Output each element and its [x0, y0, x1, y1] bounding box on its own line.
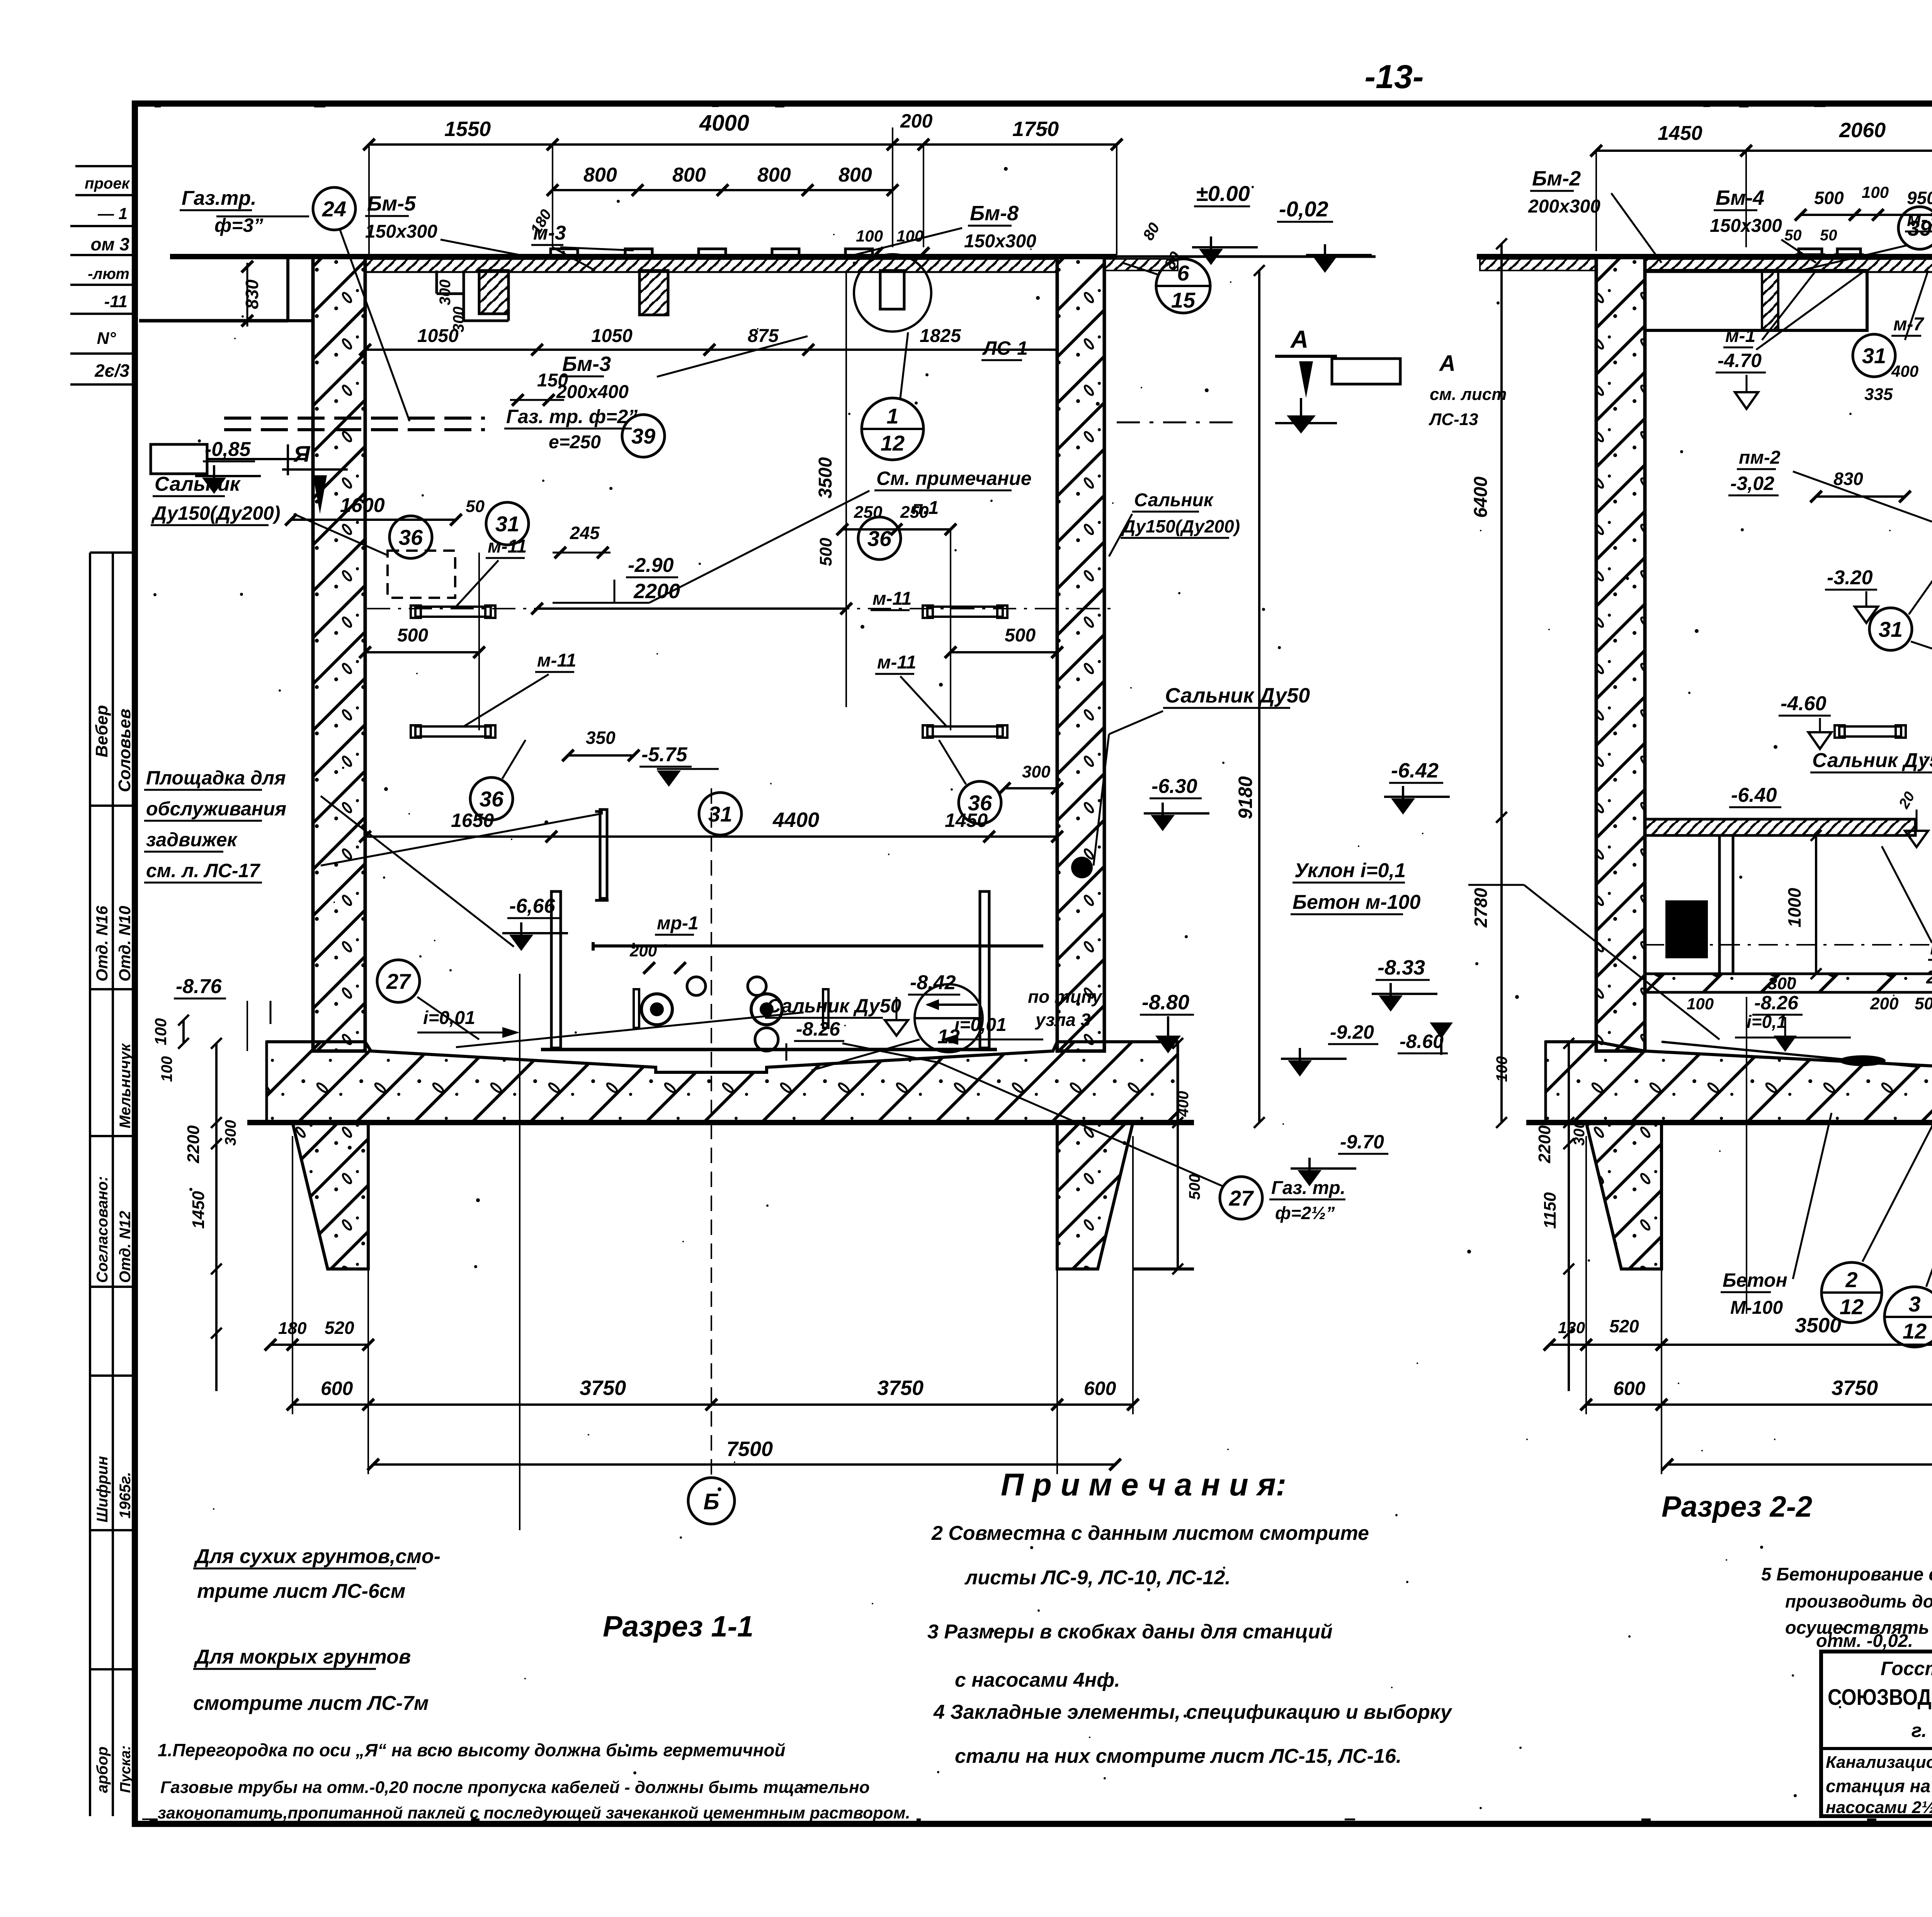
callout 36 d: [959, 781, 1001, 824]
svg-text:3750: 3750: [1832, 1376, 1878, 1400]
leader 1/12: [900, 332, 908, 398]
callout 2/12: [1821, 1262, 1882, 1323]
svg-text:39: 39: [631, 424, 655, 448]
svg-text:100: 100: [151, 1018, 170, 1045]
svg-text:31: 31: [1862, 344, 1886, 368]
svg-text:800: 800: [757, 164, 791, 186]
pump mid circle: [755, 1028, 778, 1051]
svg-text:Бм-5: Бм-5: [367, 192, 416, 215]
callout 31 rs2: [1869, 608, 1912, 650]
svg-text:1050: 1050: [417, 326, 459, 346]
svg-text:-3.20: -3.20: [1827, 566, 1873, 589]
svg-text:стали на них смотрите ли: стали на них смотрите лист ЛС-15, ЛС-16.: [955, 1745, 1401, 1767]
callout 31 b: [699, 793, 742, 835]
leader 36c: [502, 740, 526, 779]
svg-text:500: 500: [1915, 994, 1932, 1013]
leader Bm2: [1611, 193, 1662, 263]
svg-text:800: 800: [583, 164, 617, 186]
svg-text:Газ. тр. ф=2”: Газ. тр. ф=2”: [506, 406, 638, 427]
callout 36 b: [858, 517, 901, 560]
bracket plate rs mid: [1839, 726, 1901, 737]
svg-text:задвижек: задвижек: [146, 829, 238, 850]
rs top verticals: [1595, 151, 1597, 251]
svg-text:Бетон м-100: Бетон м-100: [1293, 891, 1421, 913]
embed block A: [479, 270, 509, 314]
svg-text:150х300: 150х300: [1710, 216, 1782, 236]
svg-text:-5.75: -5.75: [641, 743, 688, 766]
svg-text:с насосами 4нф.: с насосами 4нф.: [955, 1669, 1120, 1691]
sump wall right: [980, 891, 989, 1048]
leader note: [649, 491, 869, 603]
svg-text:800: 800: [838, 164, 872, 186]
svg-text:12: 12: [881, 431, 905, 455]
vert 9180 line: [1258, 270, 1260, 1123]
callout 36 c: [470, 777, 513, 820]
svg-text:39: 39: [1908, 216, 1932, 240]
svg-text:-8.33: -8.33: [1378, 956, 1425, 979]
svg-text:36: 36: [968, 791, 992, 815]
leader 27b: [939, 1063, 1223, 1186]
right footing wedge: [1057, 1123, 1133, 1269]
leader 39rs: [1801, 245, 1907, 270]
dim 1600 row: [291, 519, 456, 521]
leader 6/15: [1122, 263, 1157, 274]
svg-text:200х400: 200х400: [1926, 967, 1932, 988]
leader salnik: [294, 514, 390, 556]
svg-text:Сальник: Сальник: [1134, 490, 1214, 510]
callout circle 24: [313, 187, 355, 230]
svg-text:200х300: 200х300: [1528, 196, 1600, 217]
sump wall left: [551, 891, 561, 1048]
bottom slab rs: [1546, 1042, 1932, 1123]
svg-text:ЛС-13: ЛС-13: [1429, 410, 1478, 429]
svg-text:31: 31: [1879, 617, 1903, 641]
svg-text:1600: 1600: [340, 494, 385, 517]
callout 31 rs1: [1853, 334, 1895, 377]
pump flange left: [641, 994, 672, 1025]
svg-text:законопатить,пропитанной пакле: законопатить,пропитанной паклей с послед…: [158, 1804, 910, 1822]
sump bottom: [541, 1048, 997, 1051]
svg-text:4400: 4400: [772, 808, 819, 832]
svg-text:15: 15: [1171, 288, 1196, 312]
svg-text:Сальник Ду50: Сальник Ду50: [1812, 749, 1932, 772]
rs top dim row: [1596, 150, 1932, 152]
svg-text:830: 830: [1833, 469, 1863, 489]
callout 27 a: [377, 960, 420, 1002]
svg-text:Площадка для: Площадка для: [146, 767, 286, 789]
svg-text:150х300: 150х300: [964, 231, 1036, 252]
leader 12: [811, 1039, 920, 1070]
svg-text:27: 27: [1229, 1186, 1254, 1210]
top slab band rs mid: [1645, 259, 1932, 272]
svg-text:Канализационная насосная: Канализационная насосная: [1826, 1753, 1932, 1772]
leader Bm-5: [440, 240, 520, 255]
svg-text:См. примечание: См. примечание: [876, 468, 1032, 489]
svg-text:-11: -11: [104, 292, 128, 311]
svg-text:520: 520: [1609, 1316, 1639, 1336]
svg-text:обслуживания: обслуживания: [146, 798, 286, 820]
gas pipe through wall: [224, 417, 485, 420]
bottom dim row left section: [293, 1403, 1133, 1406]
ground step left of wall: [288, 257, 313, 321]
svg-text:Уклон i=0,1: Уклон i=0,1: [1294, 859, 1406, 882]
vert line x2460: [950, 529, 951, 730]
svg-text:Разрез 1-1: Разрез 1-1: [603, 1610, 753, 1643]
svg-text:станция на 2 агрегата с: станция на 2 агрегата с: [1826, 1776, 1932, 1796]
detail circle 1-12 plate: [854, 254, 931, 332]
svg-text:Отд. N10: Отд. N10: [116, 906, 134, 981]
svg-text:Сальник Ду50: Сальник Ду50: [1165, 684, 1310, 707]
ground band right of right wall: [1104, 259, 1178, 270]
embed block B: [639, 270, 668, 315]
stamp low box: [89, 989, 91, 1816]
mid axis dashline: [367, 608, 1117, 609]
dim row2 800x4: [553, 189, 893, 191]
svg-text:2 Совместна с данным листом: 2 Совместна с данным листом смотрите: [931, 1522, 1369, 1544]
svg-text:150х300: 150х300: [365, 221, 437, 242]
wall right of section 1-1: [1057, 257, 1104, 1051]
svg-text:-8.42: -8.42: [910, 971, 956, 994]
rs vert ext lines: [1585, 1136, 1587, 1414]
svg-text:ф=3”: ф=3”: [214, 214, 263, 236]
svg-text:245: 245: [570, 523, 600, 543]
small rectangle detail: [1332, 359, 1400, 384]
floor plate m-3 #4: [772, 249, 799, 256]
svg-text:100: 100: [1862, 183, 1889, 201]
top slab band: [365, 259, 1057, 272]
svg-text:1.Перегородка по оси „Я“ на: 1.Перегородка по оси „Я“ на всю высоту д…: [158, 1740, 786, 1760]
svg-text:Газовые трубы на отм.-0,20 пос: Газовые трубы на отм.-0,20 после пропуск…: [160, 1778, 870, 1797]
svg-text:50: 50: [466, 497, 485, 516]
bottom slab body: [267, 1042, 1178, 1123]
pump flange right: [751, 994, 782, 1025]
svg-text:5 Бетонирование стен подземной: 5 Бетонирование стен подземной части и п…: [1761, 1564, 1932, 1584]
pump axis line 2: [519, 974, 520, 1530]
svg-text:130: 130: [1558, 1318, 1585, 1337]
svg-text:-8.76: -8.76: [176, 975, 222, 998]
svg-text:ом 3: ом 3: [91, 234, 130, 254]
svg-text:24: 24: [322, 197, 346, 221]
leader uklon: [1468, 884, 1524, 886]
svg-text:1825: 1825: [920, 326, 961, 346]
bottom slab rs bottom line: [1526, 1120, 1932, 1125]
svg-text:мр-1: мр-1: [657, 913, 699, 934]
svg-text:Для мокрых грунтов: Для мокрых грунтов: [194, 1646, 411, 1668]
svg-text:12: 12: [1840, 1294, 1864, 1319]
svg-text:Ду150(Ду200): Ду150(Ду200): [151, 502, 280, 524]
svg-text:Бм-3: Бм-3: [562, 352, 611, 376]
svg-text:арбор: арбор: [94, 1747, 111, 1793]
svg-text:335: 335: [1864, 385, 1893, 404]
svg-text:500: 500: [1186, 1174, 1203, 1200]
svg-text:300: 300: [1022, 762, 1051, 781]
gland stub left: [634, 989, 639, 1028]
bottom slab bottom line: [247, 1120, 1194, 1125]
vert dim 2780: [1500, 817, 1503, 1123]
rs dim 7500: [1667, 1463, 1932, 1466]
rs vert dims left col: [1568, 1043, 1570, 1391]
callout 31 a: [486, 502, 529, 545]
svg-text:4000: 4000: [699, 111, 749, 136]
flag -5.75: [657, 771, 681, 787]
title block frame: [1821, 1652, 1932, 1816]
svg-text:— 1: — 1: [97, 204, 128, 223]
svg-text:-8.60: -8.60: [1400, 1031, 1444, 1052]
callout 6/15: [1156, 259, 1210, 313]
svg-text:П р и м е ч а н и я:: П р и м е ч а н и я:: [1001, 1467, 1286, 1502]
svg-text:М-100: М-100: [1730, 1298, 1783, 1318]
svg-text:800: 800: [672, 164, 706, 186]
leader 312: [1926, 1067, 1932, 1287]
callout 1/12: [862, 398, 923, 460]
svg-text:200: 200: [1870, 994, 1899, 1013]
svg-text:-8.80: -8.80: [1142, 991, 1189, 1014]
left footing wedge: [293, 1123, 368, 1269]
callout circle 39 left: [622, 415, 665, 457]
gland stub right: [823, 989, 828, 1028]
frame edge roughness: [712, 104, 719, 107]
svg-text:Бм-8: Бм-8: [970, 202, 1019, 225]
leader 31rs2: [1909, 549, 1932, 614]
black blob rs: [1839, 1055, 1886, 1066]
leader 27b2: [456, 1012, 804, 1047]
svg-text:950: 950: [1907, 188, 1932, 208]
floor plate m-3 #5: [845, 249, 872, 256]
svg-text:Я: Я: [293, 442, 311, 467]
callout 3/12: [1884, 1287, 1932, 1347]
dim row verticals: [368, 145, 370, 255]
floor plate m-3 #1: [551, 249, 578, 256]
ground line left section: [170, 254, 1117, 259]
leader m11-4: [900, 676, 947, 726]
svg-text:Мельничук: Мельничук: [117, 1043, 134, 1128]
svg-text:А: А: [1290, 325, 1308, 353]
svg-text:А: А: [1439, 351, 1456, 376]
svg-text:50: 50: [1820, 227, 1837, 244]
svg-text:пм-2: пм-2: [1739, 447, 1781, 468]
svg-text:м-11: м-11: [877, 652, 916, 673]
svg-text:600: 600: [1084, 1378, 1116, 1399]
svg-text:Ду150(Ду200): Ду150(Ду200): [1121, 516, 1240, 536]
leader m7: [1905, 270, 1928, 340]
svg-text:см. л. ЛС-17: см. л. ЛС-17: [146, 860, 260, 881]
svg-text:200: 200: [629, 942, 657, 960]
svg-text:6400: 6400: [1471, 476, 1491, 518]
dim row1 1550 4000 200 1750: [369, 143, 1117, 146]
svg-text:-6.30: -6.30: [1151, 775, 1197, 798]
svg-text:9180: 9180: [1235, 776, 1256, 819]
svg-text:листы ЛС-9, ЛС-10, ЛС-12.: листы ЛС-9, ЛС-10, ЛС-12.: [964, 1567, 1231, 1589]
svg-text:300: 300: [222, 1120, 239, 1146]
callout 36 a: [389, 516, 432, 558]
leader bm11: [1882, 846, 1932, 943]
platform dash axis: [1645, 944, 1932, 946]
m-11 bracket 4: [927, 726, 1003, 737]
svg-text:7500: 7500: [726, 1437, 773, 1461]
leader m-3a: [560, 247, 634, 250]
leader Bm-8: [854, 228, 962, 255]
svg-text:-лют: -лют: [88, 265, 129, 282]
svg-text:ЛС-1: ЛС-1: [982, 337, 1028, 359]
svg-text:100: 100: [1687, 995, 1714, 1013]
rs slope lines: [1662, 1042, 1917, 1067]
svg-text:Газ.тр.: Газ.тр.: [182, 187, 257, 209]
svg-text:м-11: м-11: [537, 650, 576, 671]
svg-text:2200: 2200: [633, 580, 680, 603]
svg-text:Согласовано:: Согласовано:: [94, 1176, 111, 1283]
svg-text:100: 100: [896, 227, 923, 245]
svg-text:600: 600: [1613, 1378, 1646, 1399]
callout 27 b: [1220, 1177, 1262, 1219]
leader m11-2: [464, 674, 549, 726]
svg-text:300: 300: [437, 279, 454, 305]
svg-text:200х400: 200х400: [556, 382, 629, 402]
embed step under band: [435, 270, 438, 294]
pump axis line: [711, 788, 712, 1477]
svg-text:1450: 1450: [1658, 122, 1702, 145]
leader 212: [1862, 1059, 1932, 1262]
dim row 1050 1050 875 1825: [365, 349, 1057, 351]
svg-text:2: 2: [1845, 1267, 1857, 1292]
svg-text:Отд. N16: Отд. N16: [93, 906, 111, 981]
vert line x1240: [478, 553, 480, 730]
leader platform: [321, 796, 514, 947]
vert extension lines bottom: [292, 1136, 293, 1414]
axis dash vertical: [1117, 422, 1240, 424]
svg-text:i=0,01: i=0,01: [954, 1015, 1007, 1035]
svg-text:1965г.: 1965г.: [117, 1472, 134, 1519]
leader Bm4: [1781, 240, 1816, 263]
platform bracket symbol: [595, 810, 603, 813]
leader 24: [216, 216, 309, 218]
svg-text:N°: N°: [97, 329, 116, 348]
svg-text:Бетон: Бетон: [1723, 1269, 1787, 1291]
svg-text:400: 400: [1891, 362, 1918, 380]
wall opening dashed: [388, 551, 455, 598]
svg-text:-2.90: -2.90: [628, 554, 674, 577]
svg-text:-8.26: -8.26: [1754, 992, 1799, 1014]
svg-text:4 Закладные элементы, специ: 4 Закладные элементы, спецификацию и выб…: [933, 1701, 1453, 1723]
svg-text:узла 3: узла 3: [1035, 1010, 1091, 1030]
callout 39 rs: [1898, 207, 1932, 249]
svg-text:трите лист ЛС-6см: трите лист ЛС-6см: [197, 1580, 405, 1602]
axis circle B: [688, 1478, 735, 1524]
svg-text:Газ. тр.: Газ. тр.: [1271, 1178, 1345, 1198]
pump small circle 2: [748, 977, 766, 995]
svg-text:-0,02: -0,02: [1279, 197, 1328, 221]
svg-text:300: 300: [1768, 974, 1796, 993]
svg-text:250: 250: [900, 503, 929, 522]
svg-text:Сальник: Сальник: [155, 473, 241, 495]
svg-text:м-1: м-1: [1725, 326, 1755, 346]
svg-text:-6.40: -6.40: [1731, 784, 1777, 806]
svg-text:±0.00: ±0.00: [1196, 181, 1250, 206]
svg-text:500: 500: [397, 625, 428, 646]
svg-text:м-11: м-11: [488, 536, 527, 557]
svg-text:830: 830: [242, 279, 262, 309]
svg-text:-8.26: -8.26: [796, 1018, 840, 1040]
stamp table top rows: [75, 165, 135, 167]
leader salnik right: [1109, 514, 1132, 556]
svg-text:3: 3: [1908, 1292, 1920, 1316]
leader Bm-3: [657, 336, 808, 377]
svg-text:Соловьев: Соловьев: [115, 709, 134, 792]
vert dim 6400: [1500, 244, 1503, 817]
svg-text:6: 6: [1177, 261, 1189, 285]
svg-text:100: 100: [158, 1056, 175, 1082]
svg-text:100: 100: [1493, 1056, 1510, 1082]
step line mid: [1133, 1267, 1194, 1271]
mid platform rs: [1645, 819, 1915, 835]
svg-text:Вебер: Вебер: [92, 705, 111, 757]
floor plate m-3 #3: [699, 249, 726, 256]
svg-text:СОЮЗВОДОКАНАЛПРОЕКТ: СОЮЗВОДОКАНАЛПРОЕКТ: [1828, 1685, 1932, 1710]
svg-text:350: 350: [586, 728, 616, 748]
svg-text:производить до отм. -0,70м. Да: производить до отм. -0,70м. Дальнейшее б…: [1785, 1591, 1932, 1611]
svg-text:300: 300: [1571, 1120, 1588, 1146]
beam hatch strip: [1762, 270, 1778, 330]
svg-text:3500: 3500: [815, 457, 836, 498]
svg-text:по типу: по типу: [1028, 987, 1103, 1007]
svg-text:Разрез 2-2: Разрез 2-2: [1662, 1490, 1812, 1523]
m-11 bracket 1: [415, 607, 491, 617]
svg-text:27: 27: [386, 969, 412, 993]
svg-text:см. лист: см. лист: [1430, 385, 1507, 404]
svg-text:500: 500: [1005, 625, 1036, 646]
svg-text:1000: 1000: [1784, 888, 1804, 927]
svg-text:-13-: -13-: [1365, 58, 1424, 95]
svg-text:ф=2½”: ф=2½”: [1275, 1203, 1335, 1223]
detail circle 12: [915, 984, 983, 1052]
svg-text:-6.42: -6.42: [1391, 759, 1439, 782]
svg-text:1450: 1450: [189, 1191, 208, 1229]
svg-text:Отд. N12: Отд. N12: [117, 1211, 134, 1283]
slab top edge line: [267, 1042, 1178, 1072]
svg-text:200: 200: [900, 110, 933, 132]
leader m1: [1762, 270, 1816, 340]
pump small circle 1: [687, 977, 706, 995]
leader 36d: [939, 740, 966, 784]
opening rect left: [151, 444, 207, 474]
left footing wedge rs: [1586, 1123, 1662, 1269]
svg-text:-4.70: -4.70: [1718, 350, 1762, 371]
svg-text:1150: 1150: [1541, 1192, 1560, 1229]
svg-text:520: 520: [325, 1318, 354, 1338]
svg-text:Шифрин: Шифрин: [94, 1456, 111, 1522]
svg-text:1550: 1550: [444, 117, 491, 141]
svg-text:-4.60: -4.60: [1781, 692, 1827, 715]
stamp mid box: [89, 553, 91, 989]
svg-text:31: 31: [495, 512, 519, 536]
leader beton l: [1793, 1113, 1832, 1279]
svg-text:2200: 2200: [184, 1125, 203, 1163]
svg-text:i=0,01: i=0,01: [423, 1008, 475, 1028]
ground line right section: [1477, 254, 1932, 259]
vert dim 3500: [845, 270, 847, 707]
opening leader: [207, 458, 305, 460]
bottom dim 7500: [373, 1463, 1115, 1466]
svg-text:3 Размеры в скобках даны д: 3 Размеры в скобках даны для станций: [927, 1621, 1333, 1643]
svg-text:1750: 1750: [1012, 117, 1059, 141]
svg-text:смотрите лист ЛС-7м: смотрите лист ЛС-7м: [193, 1692, 429, 1715]
leader 27a: [417, 997, 479, 1039]
wall left of section 1-1: [313, 257, 365, 1051]
svg-text:-9.70: -9.70: [1340, 1131, 1384, 1153]
svg-text:-9.20: -9.20: [1330, 1021, 1374, 1043]
leader m11-1: [456, 560, 498, 607]
svg-text:3500: 3500: [1795, 1314, 1841, 1337]
ground band rs left: [1480, 259, 1596, 270]
